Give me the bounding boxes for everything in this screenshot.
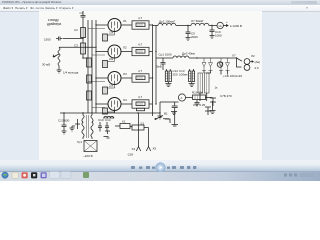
- svg-text:4,7: 4,7: [138, 95, 143, 99]
- svg-text:1/4 выхода: 1/4 выхода: [63, 71, 79, 75]
- svg-text:Х5: Х5: [153, 147, 157, 151]
- svg-text:(Ав): (Ав): [255, 60, 261, 64]
- svg-text:0,5: 0,5: [141, 122, 145, 126]
- svg-text:Ср1 1000: Ср1 1000: [159, 53, 172, 57]
- svg-text:100мк: 100мк: [179, 73, 188, 77]
- svg-text:Л2: Л2: [123, 46, 127, 50]
- svg-text:Л2: Л2: [251, 54, 255, 58]
- svg-text:К1: К1: [122, 120, 126, 124]
- svg-text:2000: 2000: [191, 35, 198, 39]
- svg-text:1к: 1к: [215, 86, 219, 90]
- svg-text:Л1: Л1: [123, 19, 127, 23]
- svg-text:Л4: Л4: [123, 98, 127, 102]
- svg-text:1А: 1А: [218, 24, 222, 28]
- svg-text:Х4: Х4: [132, 147, 136, 151]
- svg-text:30 мБ: 30 мБ: [42, 63, 50, 67]
- svg-text:Л3: Л3: [123, 72, 127, 76]
- svg-text:Др1 100мкГ: Др1 100мкГ: [159, 19, 176, 23]
- svg-text:+: +: [226, 20, 228, 24]
- svg-text:250: 250: [173, 73, 178, 77]
- svg-text:Др3 40мк: Др3 40мк: [182, 52, 196, 56]
- svg-text:+СБ 100,0х15: +СБ 100,0х15: [223, 74, 242, 78]
- svg-text:в 1200 В: в 1200 В: [230, 24, 242, 28]
- svg-text:A: A: [181, 96, 183, 100]
- svg-text:Тр1: Тр1: [77, 140, 82, 144]
- svg-text:В1: В1: [164, 112, 168, 116]
- svg-text:С16 600: С16 600: [103, 116, 115, 120]
- svg-text:-218: -218: [127, 153, 133, 157]
- svg-text:4,7: 4,7: [138, 69, 143, 73]
- svg-text:3мБ: 3мБ: [156, 65, 162, 69]
- svg-text:Л7 30мкГ: Л7 30мкГ: [191, 19, 204, 23]
- svg-text:2,5: 2,5: [255, 66, 260, 70]
- svg-text:~220 В: ~220 В: [83, 154, 93, 158]
- svg-text:4,7: 4,7: [138, 16, 143, 20]
- svg-text:1000: 1000: [215, 34, 222, 38]
- svg-text:С3: С3: [74, 44, 78, 48]
- svg-text:С7Б 270: С7Б 270: [220, 94, 232, 98]
- svg-text:1500: 1500: [44, 38, 51, 42]
- svg-text:С17 0,25: С17 0,25: [193, 103, 206, 107]
- svg-text:4,7: 4,7: [138, 43, 143, 47]
- svg-text:драйвера: драйвера: [47, 22, 61, 26]
- svg-text:С2: С2: [74, 28, 78, 32]
- svg-text:Х7: Х7: [232, 54, 236, 58]
